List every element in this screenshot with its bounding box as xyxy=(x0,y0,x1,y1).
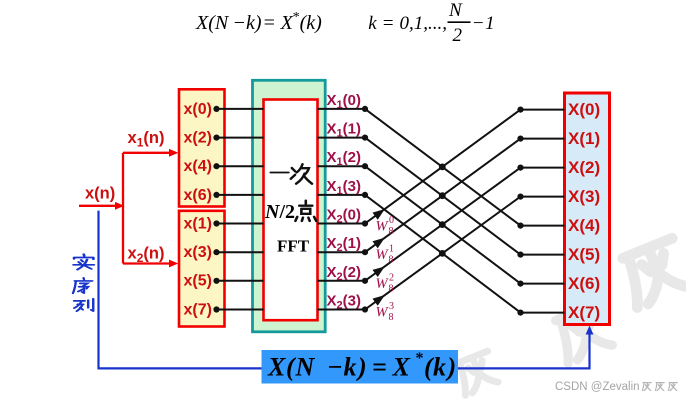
svg-text:x(1): x(1) xyxy=(184,215,212,232)
svg-text:x1(n): x1(n) xyxy=(128,129,165,150)
svg-text:8: 8 xyxy=(389,283,394,294)
svg-text:X(0): X(0) xyxy=(568,100,600,119)
svg-text:X2(0): X2(0) xyxy=(327,207,361,226)
svg-text:x(5): x(5) xyxy=(184,273,212,290)
svg-text:x(7): x(7) xyxy=(184,301,212,318)
svg-text:0: 0 xyxy=(389,215,394,226)
svg-text:X2(2): X2(2) xyxy=(327,264,361,283)
svg-text:X(7): X(7) xyxy=(568,303,600,322)
svg-text:2: 2 xyxy=(453,25,463,46)
svg-text:*: * xyxy=(292,10,299,25)
svg-text:X(3): X(3) xyxy=(568,187,600,206)
svg-text:x(4): x(4) xyxy=(184,158,212,175)
svg-text:x(6): x(6) xyxy=(184,187,212,204)
svg-text:N/2: N/2 xyxy=(264,201,295,223)
svg-text:CSDN @Zevalin: CSDN @Zevalin xyxy=(555,381,640,393)
svg-text:X(N−k)=X(k): X(N−k)=X(k) xyxy=(267,353,456,382)
svg-text:X(N−k)=X: X(N−k)=X xyxy=(195,12,294,34)
svg-text:W: W xyxy=(376,305,390,321)
svg-text:k=0,1,...,: k=0,1,..., xyxy=(368,13,447,34)
svg-text:X(5): X(5) xyxy=(568,245,600,264)
svg-text:W: W xyxy=(376,276,390,292)
svg-text:FFT: FFT xyxy=(277,237,310,256)
svg-text:X(6): X(6) xyxy=(568,274,600,293)
svg-text:X1(3): X1(3) xyxy=(327,178,361,197)
svg-text:x2(n): x2(n) xyxy=(128,245,165,266)
svg-text:*: * xyxy=(416,350,424,367)
svg-text:X2(3): X2(3) xyxy=(327,293,361,312)
svg-text:x(0): x(0) xyxy=(184,101,212,118)
svg-text:(k): (k) xyxy=(300,12,323,34)
svg-text:X1(1): X1(1) xyxy=(327,121,361,140)
svg-text:X2(1): X2(1) xyxy=(327,235,361,254)
svg-text:2: 2 xyxy=(389,272,394,283)
svg-text:W: W xyxy=(376,247,390,263)
svg-text:8: 8 xyxy=(389,312,394,323)
svg-text:8: 8 xyxy=(389,255,394,266)
svg-text:X(4): X(4) xyxy=(568,216,600,235)
svg-text:x(2): x(2) xyxy=(184,130,212,147)
svg-text:W: W xyxy=(376,219,390,235)
svg-text:1: 1 xyxy=(389,244,394,255)
svg-text:X(1): X(1) xyxy=(568,129,600,148)
svg-text:N: N xyxy=(448,0,463,21)
svg-text:3: 3 xyxy=(389,301,394,312)
svg-text:x(n): x(n) xyxy=(85,184,115,202)
svg-text:X1(2): X1(2) xyxy=(327,149,361,168)
svg-text:−1: −1 xyxy=(472,13,495,34)
svg-text:8: 8 xyxy=(389,226,394,237)
svg-text:x(3): x(3) xyxy=(184,244,212,261)
svg-text:X1(0): X1(0) xyxy=(327,92,361,111)
svg-text:X(2): X(2) xyxy=(568,158,600,177)
